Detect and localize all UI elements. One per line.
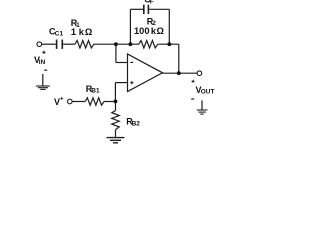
svg-text:OUT: OUT xyxy=(201,89,215,96)
svg-text:kΩ: kΩ xyxy=(151,26,165,36)
svg-text:+: + xyxy=(60,96,64,103)
svg-text:B2: B2 xyxy=(132,120,141,127)
svg-text:IN: IN xyxy=(39,59,46,66)
svg-text:F: F xyxy=(150,0,154,5)
svg-text:C1: C1 xyxy=(55,30,64,37)
svg-text:100: 100 xyxy=(134,26,150,36)
svg-text:1: 1 xyxy=(71,27,76,37)
svg-text:kΩ: kΩ xyxy=(79,27,93,37)
svg-text:B1: B1 xyxy=(91,88,100,95)
